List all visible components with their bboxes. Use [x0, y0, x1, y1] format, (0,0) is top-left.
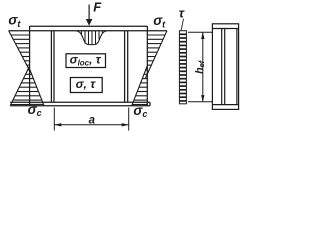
- shear stress ladder strip: [179, 31, 186, 104]
- sigma_t stress triangle, top right: [146, 31, 168, 78]
- wall left edge: [29, 31, 31, 106]
- svg-text:σt: σt: [153, 13, 166, 29]
- svg-text:σ, τ: σ, τ: [76, 77, 97, 91]
- sigma_t stress triangle, top left: [9, 31, 30, 71]
- section view outer rectangle: [212, 24, 238, 110]
- left stud (double line): [50, 31, 52, 103]
- wall right edge: [146, 31, 148, 106]
- box sigma tau: [70, 77, 102, 93]
- force arrow F: [86, 5, 93, 26]
- svg-text:τ: τ: [179, 6, 185, 21]
- svg-text:F: F: [93, 0, 102, 14]
- section inner stud pair: [221, 29, 223, 105]
- box sigma_loc tau: [66, 53, 106, 68]
- svg-text:σt: σt: [8, 13, 21, 29]
- local stress bell under load: [76, 31, 107, 45]
- svg-text:hef: hef: [193, 59, 206, 74]
- wall bottom plate: [10, 101, 150, 103]
- dimension h_ef: [188, 32, 212, 102]
- wall top plate: [30, 25, 148, 27]
- right stud (double line): [124, 31, 126, 103]
- dimension a: [54, 108, 128, 131]
- compression wedge, bottom left inside wall: [30, 70, 44, 106]
- sigma_c stress triangle, bottom left outside: [10, 66, 29, 106]
- section right wall inner line: [236, 29, 238, 105]
- sigma_c stress triangle, bottom right inside wall: [132, 66, 147, 106]
- svg-text:a: a: [89, 115, 96, 127]
- top fibre reference line: [9, 30, 168, 32]
- svg-text:σloc, τ: σloc, τ: [70, 53, 102, 68]
